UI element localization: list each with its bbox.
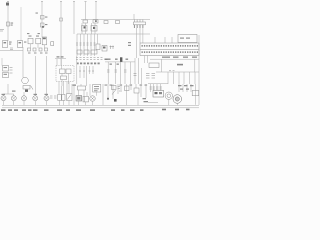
wire vertical x97 [97, 34, 99, 44]
wire lamp drops top [4, 92, 25, 96]
connector row mid-left [28, 48, 48, 51]
wire bundle down x136.6 [136, 28, 138, 58]
connector marks br top [150, 87, 163, 89]
fuse F2 under bus [104, 21, 108, 24]
label specks under connector row [28, 53, 48, 54]
fuse strip text row 2 [142, 51, 199, 53]
fuse box strip right [140, 43, 199, 56]
connector pairs x146-156 y74 [146, 74, 155, 79]
component box bc1 [112, 86, 117, 90]
switch block Sb [62, 94, 65, 100]
relay K3 lower box [61, 76, 67, 80]
label specks right of K1 [9, 42, 12, 45]
component box bc3 [134, 88, 139, 93]
connector marks y70 right-center [107, 70, 127, 72]
lamp E3 [22, 96, 27, 101]
node dark dot bc1 [114, 99, 117, 102]
switch S2 box [36, 38, 41, 44]
connector ticks left y48 [10, 48, 13, 50]
component box x83 [83, 96, 89, 102]
wire segment y102.7 left of bus [148, 102, 158, 104]
connector ticks beside boxes [10, 68, 13, 74]
relay box under bus a [83, 20, 88, 23]
text lines in instrument box [94, 86, 99, 91]
wire lamp drops to bus [4, 99, 178, 105]
ground bus line 2 [2, 107, 199, 109]
label marks above rail y58 [108, 59, 129, 60]
switch block Sa [58, 94, 62, 100]
label 1.0b text right [177, 64, 183, 66]
wire verticals below right rail [168, 72, 195, 84]
tick marks on right rail [169, 70, 175, 72]
component small boxes y50 center [77, 50, 97, 54]
instrument boxes far left mid [3, 66, 9, 78]
connector marks y71 center [79, 70, 94, 72]
wire verticals bottom center [59, 82, 97, 106]
connector field rows center [76, 58, 103, 60]
wire drops bus to rail [82, 23, 95, 34]
label specks in top box [180, 38, 190, 39]
wire stubs below switches [31, 44, 45, 48]
label specks right of K2 [24, 42, 26, 43]
wire verticals center below field [57, 56, 93, 86]
component cluster above rail a [82, 26, 88, 32]
wire vertical x96 [95, 2, 97, 20]
horn H2 concentric darker [173, 95, 182, 104]
label specks left of strip [128, 42, 131, 46]
label marks br top right [178, 85, 194, 90]
component box x77 top [78, 86, 86, 90]
connector marks x110 [110, 46, 115, 50]
switch block Sc with diagonal [67, 94, 73, 101]
connector pairs x50-56 [50, 96, 57, 98]
label text above rail [57, 56, 64, 57]
relay K3 contact box [66, 69, 71, 74]
wire verticals x135-141 [135, 58, 142, 84]
wire verticals rail to connector field [77, 34, 95, 56]
switch diagonal bc [112, 90, 116, 95]
component box x102 dark [102, 46, 107, 52]
wire horizontal y83.5 right-left [148, 83, 168, 85]
fuse tips dark [134, 25, 143, 28]
wire branch to lamps [4, 93, 14, 95]
wire rail y59.2 right [150, 58, 199, 60]
relay K3 dashed box [56, 66, 74, 82]
wire vertical x23 [22, 47, 24, 78]
horn H1 concentric [165, 92, 172, 99]
component box on x8 wire [7, 22, 10, 26]
wire vertical x42 [41, 2, 43, 37]
node left edge mark [0, 30, 4, 32]
wire bus horizontal y19.5 [81, 19, 150, 21]
lamp E5 [44, 96, 49, 101]
wire x140 down [139, 28, 141, 43]
relay K2 [18, 41, 23, 48]
relay K1 [3, 41, 8, 48]
wire vertical left edge x2 [1, 58, 3, 66]
fuse strip text row 1 [142, 45, 199, 47]
cluster diagonal mark [31, 86, 34, 90]
relay K3 coil box [60, 69, 66, 74]
label marks bc right [143, 98, 149, 102]
lamp E4 [33, 96, 38, 101]
connector pairs x133-137 y73 [134, 74, 137, 76]
label dark mark on S3 [43, 38, 46, 40]
lamp E2 [11, 96, 16, 101]
label specks beside x42 [36, 13, 48, 26]
component box x96 [96, 44, 100, 50]
resistor dark box [76, 96, 82, 102]
switch S1 box [28, 38, 33, 44]
label 30 text [105, 59, 108, 61]
wire K3 internals [61, 59, 68, 86]
component box far right [192, 91, 199, 96]
wire verticals below rail y61.9 [108, 62, 130, 84]
wire vertical x21 [20, 7, 22, 41]
switch S3 box [42, 37, 46, 45]
ground bus line 1 [2, 104, 199, 106]
wire vertical x85.5 [85, 2, 87, 20]
top box above fuse strip right [178, 35, 197, 43]
component box on x42 wire lower [41, 23, 45, 27]
connector block under bus [134, 20, 146, 25]
wire stubs below strip left [145, 56, 148, 64]
label mark rows right top y57 [162, 57, 197, 58]
label specks beside x8 box [11, 23, 14, 26]
component box on x42 wire upper [41, 16, 45, 20]
wire vertical x8 [7, 6, 9, 42]
wire vertical x35.25 [34, 56, 36, 96]
relay box under bus b [93, 20, 98, 23]
gauge ellipse [22, 77, 29, 84]
lamp labels above [2, 91, 49, 96]
node dark dot bc2 [107, 98, 109, 100]
instrument box with text [93, 85, 101, 93]
component cluster above rail b [91, 26, 97, 32]
label specks in left boxes [4, 67, 8, 75]
motor lamp circle [90, 96, 95, 101]
component box bc2 [125, 86, 130, 91]
relay cluster bottom right [153, 91, 164, 98]
wire vertical x74 [73, 2, 75, 34]
connector field row2 specks [77, 63, 100, 65]
label text x73 [73, 85, 77, 86]
wire verticals bottom right [151, 84, 196, 105]
cluster box above lamps [23, 86, 30, 90]
wire stub above bus x134 [133, 14, 135, 20]
component faint box on x61 upper [60, 18, 63, 21]
node dark junction blob [120, 57, 122, 62]
node top terminal ticks [7, 1, 97, 3]
wire verticals between right rails [161, 59, 194, 72]
connector marks bc x117-122 [118, 87, 123, 92]
lamp E1 [1, 96, 6, 101]
label specks row y84 right-center [105, 85, 148, 86]
label specks below rail [110, 64, 119, 65]
label specks above switch row [27, 33, 40, 37]
wire x142.9 down [142, 28, 144, 43]
connector label blob top-left [6, 3, 9, 6]
connector marks y43 center [76, 43, 96, 45]
resistor block x50 [51, 42, 54, 46]
stub wires above strip [155, 37, 172, 43]
wire vertical right edge x199 [198, 35, 200, 105]
wire vertical x8 low [7, 84, 9, 94]
label text row bottom [1, 109, 190, 111]
wire rail y61.9 center-right [105, 61, 135, 63]
wire rail y34 [77, 33, 150, 35]
wire horizontal y50.5 left [0, 50, 23, 52]
component box x149 [149, 63, 159, 68]
wire rail y72 right [156, 71, 199, 73]
wire verticals bottom right-center [103, 84, 146, 105]
node dark dot on x42 [42, 26, 44, 28]
wire vertical x61 [60, 2, 62, 66]
fuse F3 under bus [116, 21, 120, 24]
wire rail y58.7 center-left [55, 58, 66, 60]
dark label in cluster [25, 90, 28, 92]
wire vertical x46.5 [46, 56, 48, 96]
